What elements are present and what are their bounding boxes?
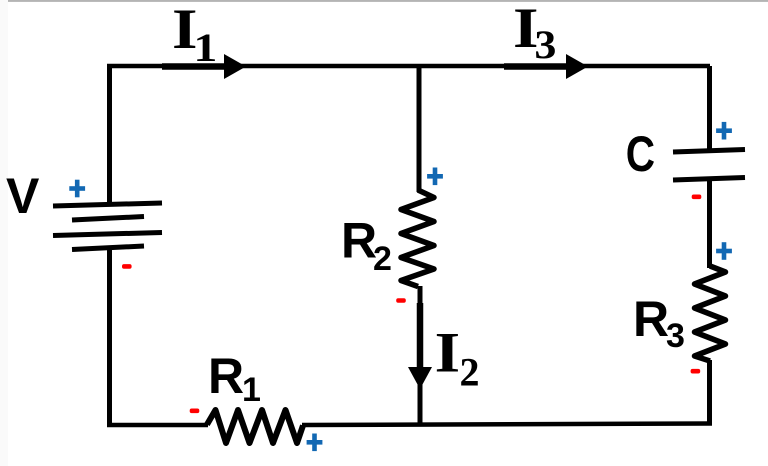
wire: top horizontal [107, 64, 710, 69]
svg-text:C: C [626, 126, 655, 182]
wire: right vertical middle (capacitor to R3) [707, 178, 712, 268]
R2 plus sign [427, 168, 443, 186]
C minus sign [692, 195, 702, 200]
svg-text:3: 3 [534, 22, 556, 67]
wire: middle vertical lower (R2 to bottom wire) [418, 286, 423, 425]
C plus sign [716, 122, 732, 140]
battery V plate 4 (short bottom) [72, 246, 144, 250]
battery plus sign [69, 180, 85, 198]
current arrow I3 head [566, 54, 588, 79]
wire: right vertical upper (top wire to capacitor) [707, 66, 712, 152]
wire: middle vertical upper (node to R2) [417, 66, 422, 192]
current arrow I2 shaft [417, 303, 424, 372]
wire: left vertical lower (battery - to bottom wire) [107, 247, 112, 425]
current arrow I1 shaft [162, 63, 228, 70]
top gray bar [8, 0, 768, 2]
R1 plus sign [307, 434, 323, 452]
svg-text:R: R [341, 213, 377, 269]
battery minus sign [122, 264, 132, 269]
wire: left vertical upper (battery + to top wire) [107, 66, 112, 206]
svg-text:2: 2 [460, 350, 480, 395]
R2 minus sign [396, 298, 406, 303]
svg-text:I: I [435, 322, 461, 385]
wire: right vertical lower (R3 to bottom wire) [707, 360, 712, 425]
svg-text:V: V [6, 168, 40, 224]
R3 minus sign [691, 369, 701, 374]
resistor R1 zigzag [207, 410, 303, 443]
current arrow I2 head [408, 367, 432, 389]
current arrow I1 head [224, 54, 246, 79]
wire: bottom horizontal right segment [302, 424, 712, 426]
resistor R3 zigzag [695, 266, 726, 361]
capacitor C plate top [673, 150, 745, 153]
battery V plate 3 (long) [53, 233, 162, 236]
current arrow I3 shaft [504, 63, 570, 70]
battery V plate 2 (short) [72, 217, 144, 221]
svg-text:R: R [633, 291, 669, 347]
svg-text:1: 1 [193, 25, 217, 70]
R3 plus sign [716, 242, 732, 260]
svg-text:1: 1 [242, 371, 261, 409]
svg-text:3: 3 [666, 317, 685, 355]
battery V plate 1 (long top) [53, 203, 162, 206]
svg-text:2: 2 [373, 240, 392, 278]
capacitor C plate bottom [673, 178, 745, 181]
left pale strip [0, 0, 8, 466]
R1 minus sign [190, 409, 200, 414]
resistor R2 zigzag [401, 190, 434, 287]
wire: bottom horizontal left segment [107, 423, 208, 428]
svg-text:R: R [208, 348, 244, 404]
